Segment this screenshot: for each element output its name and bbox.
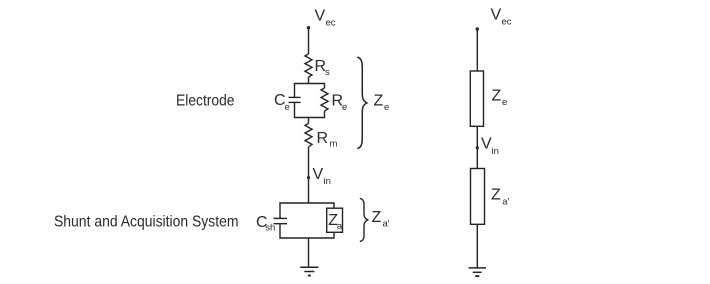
- ground (left circuit): [300, 267, 318, 275]
- wire Vec to Rs: [308, 28, 310, 54]
- brace for Za' group: [360, 198, 368, 241]
- svg-text:Z: Z: [491, 187, 501, 204]
- svg-text:a: a: [337, 221, 343, 232]
- svg-text:Z: Z: [374, 93, 384, 110]
- svg-text:ec: ec: [326, 18, 336, 29]
- svg-text:Z: Z: [372, 209, 382, 226]
- impedance box Ze: [470, 71, 483, 126]
- wire bottom of Csh/Za loop: [280, 224, 334, 238]
- resistor Rs: [305, 54, 312, 77]
- wire Ze to Za': [476, 126, 478, 168]
- wire Rs to parallel group: [308, 77, 310, 84]
- resistor Rm: [305, 124, 312, 148]
- label Ze (brace): [374, 93, 390, 114]
- label Re: [332, 92, 348, 113]
- label Za' (brace): [372, 209, 390, 230]
- svg-text:V: V: [481, 136, 492, 153]
- svg-text:e: e: [384, 102, 389, 113]
- label Za' (right circuit): [491, 187, 510, 208]
- node Vec (right circuit): [476, 7, 512, 31]
- svg-text:a′: a′: [383, 219, 390, 230]
- svg-text:a′: a′: [502, 197, 509, 208]
- node Vin (left circuit): [307, 166, 331, 187]
- svg-text:e: e: [342, 102, 347, 113]
- svg-text:sh: sh: [265, 222, 275, 233]
- svg-text:e: e: [285, 102, 290, 113]
- label Za: [328, 212, 343, 232]
- svg-text:Shunt and Acquisition System: Shunt and Acquisition System: [54, 214, 239, 231]
- wire Za' to ground: [476, 224, 478, 268]
- svg-text:s: s: [325, 67, 330, 78]
- svg-text:R: R: [317, 130, 329, 147]
- label Rs: [315, 58, 331, 78]
- wire loop to ground: [308, 238, 310, 267]
- svg-text:in: in: [492, 146, 499, 157]
- svg-text:V: V: [315, 8, 326, 25]
- svg-text:Electrode: Electrode: [176, 93, 235, 110]
- label Ze (right circuit): [492, 88, 508, 109]
- svg-text:V: V: [491, 7, 502, 24]
- svg-text:Z: Z: [492, 88, 502, 105]
- capacitor Csh: [274, 218, 288, 223]
- wire loop to Rm: [308, 118, 310, 124]
- svg-text:ec: ec: [502, 17, 512, 28]
- svg-text:m: m: [330, 139, 338, 150]
- resistor Re: [321, 88, 328, 111]
- svg-text:in: in: [324, 176, 331, 187]
- capacitor Ce: [289, 97, 301, 102]
- svg-text:V: V: [313, 166, 324, 183]
- wire top of Ce/Re loop: [295, 84, 325, 98]
- brace for Ze group: [357, 57, 367, 149]
- ground (right circuit): [469, 268, 487, 276]
- node Vec (left circuit): [307, 8, 336, 30]
- node Vin (right circuit): [476, 136, 499, 158]
- label Ce: [274, 92, 290, 113]
- label Rm: [317, 130, 338, 150]
- wire top of Csh/Za loop: [280, 203, 334, 218]
- impedance box Za': [471, 169, 485, 225]
- svg-text:e: e: [502, 97, 507, 108]
- wire Vec to Ze box: [476, 29, 478, 71]
- wire Rm to Vin node: [308, 147, 310, 203]
- label Csh: [256, 214, 275, 234]
- impedance box Za: [327, 208, 343, 232]
- wire bottom of Ce/Re loop: [295, 102, 325, 117]
